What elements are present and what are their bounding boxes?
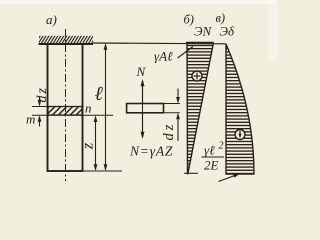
svg-text:N=γAZ: N=γAZ xyxy=(129,144,173,159)
svg-text:dz: dz xyxy=(161,122,177,141)
EN bottom tick xyxy=(184,172,198,174)
leader arrow to Edelta bottom xyxy=(219,174,239,181)
svg-text:б): б) xyxy=(184,13,194,27)
svg-text:2: 2 xyxy=(219,141,224,152)
Edelta axis xyxy=(225,44,227,175)
fixed support hatching xyxy=(39,36,93,44)
EN slant edge xyxy=(188,43,214,174)
svg-text:ℓ: ℓ xyxy=(95,83,104,105)
free-body slice rectangle xyxy=(127,104,164,113)
Edelta parabolic edge xyxy=(226,44,254,174)
subtle scan light wash right edge xyxy=(268,0,277,60)
EN top edge xyxy=(186,42,214,44)
EN triangle hatched area xyxy=(187,43,214,174)
slice edge extension lines (right) xyxy=(164,103,180,105)
svg-text:n: n xyxy=(85,101,92,116)
down-arrow-in-circle sign xyxy=(235,130,245,140)
svg-text:N: N xyxy=(136,64,147,79)
axis through slice xyxy=(142,104,144,113)
dimension l line xyxy=(105,45,107,170)
bar outline xyxy=(48,44,83,171)
svg-text:z: z xyxy=(80,142,97,150)
svg-text:а): а) xyxy=(46,12,57,27)
N up arrow above slice xyxy=(142,81,144,104)
svg-text:2E: 2E xyxy=(204,158,219,173)
plus-in-circle sign xyxy=(192,71,202,81)
svg-text:γAℓ: γAℓ xyxy=(154,49,173,64)
m arrow (up to slice bottom) xyxy=(39,117,41,127)
svg-text:Эδ: Эδ xyxy=(220,24,236,39)
svg-text:dz: dz xyxy=(35,86,50,102)
bar bottom extension line xyxy=(83,170,122,172)
slice bottom line extended xyxy=(32,114,113,116)
EN axis xyxy=(186,43,189,175)
svg-text:m: m xyxy=(26,112,35,127)
dz arrow (down to slice top) xyxy=(39,97,41,106)
Edelta bottom edge xyxy=(226,173,255,175)
bar centerline xyxy=(65,29,67,181)
dz dimension arrows (right of free body) xyxy=(177,89,179,102)
weight down arrow below slice xyxy=(142,113,144,137)
subtle scan light wash top edge xyxy=(0,0,277,4)
slice top tick (left) xyxy=(32,106,47,108)
dimension z line xyxy=(95,117,97,170)
hatched elementary slice in bar xyxy=(48,107,82,116)
Edelta hatched area (parabola) xyxy=(226,44,254,174)
support surface line xyxy=(39,43,94,45)
svg-text:γℓ: γℓ xyxy=(204,143,215,158)
datum line (top reference) xyxy=(93,42,226,45)
svg-text:ЭN: ЭN xyxy=(194,24,213,39)
leader line to EN top xyxy=(178,47,194,59)
